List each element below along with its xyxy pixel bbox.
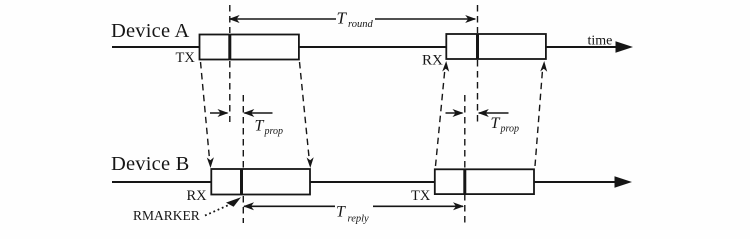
TX frame box on device B: [435, 169, 534, 194]
svg-text:RX: RX: [187, 188, 208, 204]
svg-text:Device B: Device B: [111, 153, 189, 175]
svg-text:round: round: [348, 19, 373, 30]
TX RMARKER thick line device B: [463, 169, 466, 195]
RX frame box on device A: [446, 34, 546, 59]
T_prop dimension arrows (right pair): [446, 112, 463, 114]
svg-text:prop: prop: [264, 126, 284, 137]
T_reply dimension arrow: [244, 205, 335, 207]
svg-text:T: T: [336, 203, 346, 220]
T_prop dimension arrows (left pair): [210, 112, 228, 114]
TX RMARKER thick line device A: [228, 34, 231, 60]
RX frame box on device B: [211, 169, 310, 195]
time axis arrowhead B: [615, 176, 633, 188]
svg-text:T: T: [337, 9, 348, 28]
dashed node line: RX marker instant at device A (x=477.5): [477, 5, 479, 33]
svg-text:RX: RX: [422, 53, 443, 69]
svg-text:Device A: Device A: [111, 20, 189, 42]
RX RMARKER thick line device A: [476, 34, 479, 60]
propagation dashed wire: A TX frame left edge to B RX frame left edge: [201, 62, 210, 159]
device A timeline wire: [112, 46, 618, 48]
RMARKER dotted callout arrow: [205, 204, 231, 216]
svg-text:reply: reply: [348, 213, 370, 224]
RX RMARKER thick line device B: [240, 169, 243, 195]
svg-text:T: T: [491, 115, 501, 132]
T_round dimension arrow: [230, 18, 336, 20]
svg-text:TX: TX: [411, 188, 431, 204]
device B timeline wire: [112, 181, 617, 183]
propagation dashed wire: B TX frame left edge to A RX frame left edge: [436, 70, 445, 166]
svg-text:T: T: [255, 118, 265, 135]
svg-text:TX: TX: [176, 50, 196, 66]
TX frame box on device A: [200, 35, 299, 60]
propagation dashed wire: A TX frame right edge to B RX frame right edge: [300, 62, 310, 159]
propagation dashed wire: B TX frame right edge to A RX frame right edge: [535, 70, 543, 166]
svg-text:time: time: [588, 34, 613, 49]
svg-text:RMARKER: RMARKER: [133, 208, 200, 223]
time axis arrowhead A: [616, 41, 634, 53]
dashed node line: TX marker instant at device B (x=464.8): [464, 95, 466, 168]
dashed node line: TX marker instant at device A (x=229.8): [229, 5, 231, 33]
dashed node line: RX marker instant at device B (x=243.3): [242, 95, 244, 168]
svg-text:prop: prop: [500, 124, 520, 135]
